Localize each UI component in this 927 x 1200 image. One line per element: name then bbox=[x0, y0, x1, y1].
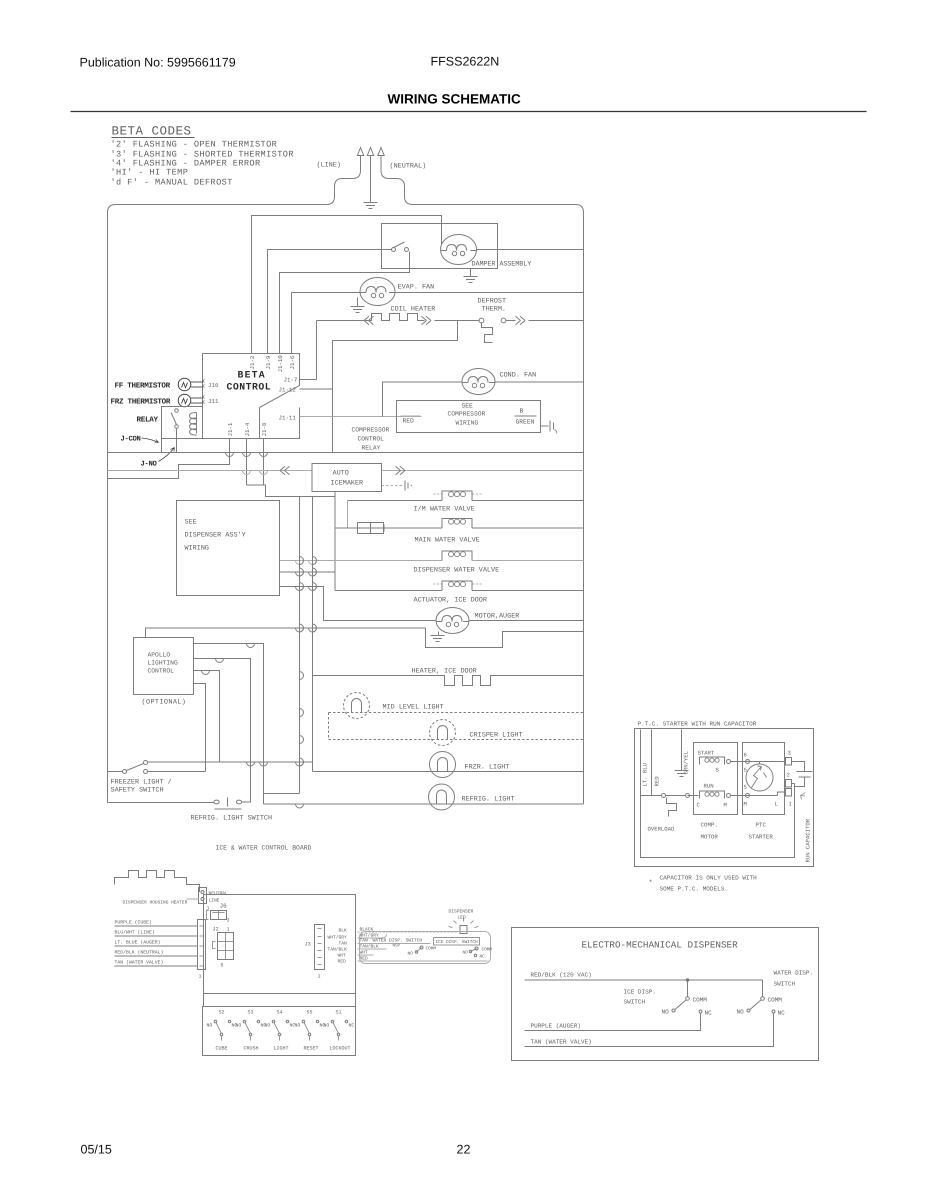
wire: neutral bus bbox=[108, 452, 584, 454]
svg-text:CONTROL: CONTROL bbox=[358, 436, 385, 443]
svg-text:1: 1 bbox=[227, 927, 230, 933]
svg-text:EVAP. FAN: EVAP. FAN bbox=[398, 284, 435, 292]
lamp: mid level light (optional) bbox=[344, 693, 370, 719]
wire: neutral lamp rail bbox=[299, 497, 301, 794]
wire: auger motor to right edge bbox=[469, 620, 584, 622]
wire: GRN/YEL ground lead bbox=[681, 730, 683, 771]
capacitor: run capacitor bbox=[792, 762, 805, 772]
svg-text:J6: J6 bbox=[220, 903, 228, 910]
svg-text:Publication No: 5995661179: Publication No: 5995661179 bbox=[80, 56, 236, 70]
neutral-bus arrow bbox=[367, 148, 373, 156]
wire: actuator feed jog bbox=[280, 571, 336, 573]
svg-text:RELAY: RELAY bbox=[137, 417, 159, 425]
svg-text:J1-7: J1-7 bbox=[284, 377, 298, 384]
svg-text:RUN: RUN bbox=[704, 783, 714, 790]
wire: J1-8 rail bbox=[263, 439, 265, 486]
svg-text:START: START bbox=[698, 750, 715, 757]
motor: condenser fan bbox=[462, 369, 495, 395]
svg-text:J1-10: J1-10 bbox=[277, 355, 284, 373]
svg-text:FRZ THERMISTOR: FRZ THERMISTOR bbox=[111, 398, 171, 407]
svg-text:05/15: 05/15 bbox=[81, 1143, 112, 1157]
lamp: freezer light bbox=[430, 752, 456, 778]
dispenser switch enclosure bbox=[360, 932, 491, 964]
thermistor: FF sensor bbox=[178, 378, 191, 391]
svg-text:FREEZER LIGHT /: FREEZER LIGHT / bbox=[111, 779, 172, 787]
svg-text:DISPENSER: DISPENSER bbox=[449, 909, 474, 915]
control board outline bbox=[204, 895, 356, 994]
header rule bbox=[71, 111, 867, 113]
svg-text:J1-1: J1-1 bbox=[227, 422, 234, 436]
wire: rail base link bbox=[264, 793, 300, 795]
svg-text:P.T.C. STARTER WITH RUN CAPACI: P.T.C. STARTER WITH RUN CAPACITOR bbox=[638, 721, 757, 728]
svg-text:S5: S5 bbox=[307, 1010, 313, 1016]
damper assembly box bbox=[382, 224, 498, 269]
svg-text:TAN (WATER VALVE): TAN (WATER VALVE) bbox=[531, 1039, 592, 1046]
svg-text:I: I bbox=[789, 801, 792, 808]
svg-text:SAFETY SWITCH: SAFETY SWITCH bbox=[111, 787, 164, 795]
svg-text:LT. BLU: LT. BLU bbox=[642, 763, 649, 787]
wire: icemaker test plug lead bbox=[382, 485, 404, 487]
svg-text:TAN/BLK: TAN/BLK bbox=[328, 947, 348, 953]
svg-text:BETA CODES: BETA CODES bbox=[112, 125, 192, 139]
wire: J1-6 to evap fan row bbox=[291, 293, 293, 354]
wire: I/M valve feed link bbox=[347, 501, 349, 529]
svg-text:COMPRESSOR: COMPRESSOR bbox=[448, 411, 486, 418]
board lower outline link bbox=[203, 994, 205, 1007]
svg-text:CAPACITOR IS ONLY USED WITH: CAPACITOR IS ONLY USED WITH bbox=[660, 875, 758, 882]
switch: freezer light safety switch bbox=[123, 770, 127, 774]
svg-text:J1-2: J1-2 bbox=[249, 355, 256, 369]
svg-text:J3: J3 bbox=[305, 942, 311, 948]
svg-text:LINE: LINE bbox=[209, 898, 220, 904]
svg-text:TAN: TAN bbox=[360, 938, 369, 944]
lamp: refrigerator light bbox=[429, 784, 455, 810]
wire: main valve feed bbox=[335, 527, 358, 529]
wire+resistor: heater ice door row bbox=[313, 676, 584, 686]
wire: icemaker bus left bbox=[108, 470, 313, 472]
terminal 2 bbox=[786, 780, 792, 788]
connector arrows into heater bbox=[369, 316, 374, 324]
ground: auger motor bbox=[438, 632, 440, 636]
svg-text:FFSS2622N: FFSS2622N bbox=[431, 55, 500, 69]
wire: apollo output 4 bbox=[194, 684, 206, 772]
switch: refrig light switch bbox=[214, 800, 219, 804]
PTC STARTER box bbox=[743, 743, 785, 815]
wire: frzr light row bbox=[313, 771, 584, 773]
main schematic enclosure left edge bbox=[107, 213, 109, 803]
svg-text:CUBE: CUBE bbox=[216, 1046, 228, 1052]
wire: apollo to auger return bbox=[146, 628, 426, 638]
switch: ice dispenser switch bbox=[687, 980, 689, 997]
svg-text:ICE DISP.: ICE DISP. bbox=[624, 989, 656, 996]
svg-text:COMM: COMM bbox=[768, 997, 783, 1004]
ground: mains earth bbox=[370, 159, 372, 203]
wire: actuator to right edge bbox=[472, 590, 584, 592]
wire: refrig light row bbox=[264, 803, 584, 805]
svg-text:22: 22 bbox=[457, 1143, 471, 1157]
connector J11 bbox=[203, 396, 205, 404]
AUTO ICEMAKER box bbox=[312, 464, 382, 492]
switch: damper switch bbox=[392, 248, 396, 252]
svg-text:'HI' - HI TEMP: 'HI' - HI TEMP bbox=[111, 168, 189, 178]
APOLLO LIGHTING CONTROL box bbox=[134, 638, 194, 695]
solenoid coil: actuator ice door bbox=[442, 581, 472, 591]
svg-text:COMM: COMM bbox=[482, 948, 493, 953]
svg-text:RED: RED bbox=[654, 776, 661, 787]
svg-text:NO: NO bbox=[662, 1009, 670, 1016]
svg-text:NO: NO bbox=[265, 1023, 271, 1029]
solenoid coil: main water valve bbox=[442, 519, 472, 529]
svg-text:WHT: WHT bbox=[338, 953, 347, 959]
svg-text:5: 5 bbox=[744, 784, 747, 791]
svg-text:COMM: COMM bbox=[693, 997, 708, 1004]
wire: J-CON pin drop bbox=[161, 439, 163, 453]
svg-text:3: 3 bbox=[227, 918, 230, 924]
svg-text:J1-8: J1-8 bbox=[261, 422, 268, 436]
wire: start to PTC 6 and terminal 3 bbox=[731, 761, 786, 763]
wire: neutral entry to main box top edge (right) bbox=[381, 159, 584, 213]
wire: J1-12 stub bbox=[300, 388, 333, 390]
svg-text:3: 3 bbox=[788, 750, 791, 757]
svg-text:6: 6 bbox=[744, 752, 747, 759]
wire: dispenser valve to right edge bbox=[472, 560, 584, 562]
wire: apollo output 2 bbox=[194, 659, 251, 803]
svg-text:M: M bbox=[724, 802, 727, 809]
svg-text:J1-6: J1-6 bbox=[289, 355, 296, 369]
svg-text:TAN: TAN bbox=[339, 941, 348, 947]
svg-text:J10: J10 bbox=[208, 382, 219, 389]
svg-text:J1-12: J1-12 bbox=[279, 387, 297, 394]
wire: evap fan row bbox=[292, 292, 361, 294]
wire: apollo output 1 bbox=[194, 644, 264, 805]
svg-text:(OPTIONAL): (OPTIONAL) bbox=[142, 699, 187, 707]
svg-text:S4: S4 bbox=[277, 1010, 283, 1016]
SEE COMPRESSOR WIRING box bbox=[397, 401, 541, 433]
relay: switch contacts bbox=[175, 409, 179, 413]
wire: rail jog to feeder bbox=[247, 485, 336, 497]
svg-text:RUN CAPACITOR: RUN CAPACITOR bbox=[805, 818, 812, 862]
defrost thermostat terminals bbox=[479, 318, 484, 323]
svg-text:NO: NO bbox=[236, 1023, 242, 1029]
svg-text:S2: S2 bbox=[219, 1010, 225, 1016]
svg-text:GREEN: GREEN bbox=[516, 419, 535, 426]
wire: mid level light row (dashed) bbox=[329, 712, 584, 714]
svg-text:CRISPER LIGHT: CRISPER LIGHT bbox=[470, 732, 523, 740]
svg-text:NC: NC bbox=[480, 955, 486, 960]
wire: cond fan to right edge bbox=[495, 381, 584, 383]
fuse: water valve thermal fuse bbox=[358, 523, 384, 534]
svg-text:*: * bbox=[649, 879, 653, 888]
svg-text:(NEUTRAL): (NEUTRAL) bbox=[390, 163, 427, 171]
resistor: coil heater element bbox=[317, 314, 425, 321]
switch: ice dispenser microswitch bbox=[475, 947, 478, 950]
svg-text:LOCKOUT: LOCKOUT bbox=[330, 1046, 351, 1052]
svg-text:APOLLO: APOLLO bbox=[148, 652, 171, 659]
svg-text:BLU/WHT (LINE): BLU/WHT (LINE) bbox=[115, 930, 155, 936]
svg-text:TAN (WATER VALVE): TAN (WATER VALVE) bbox=[115, 960, 164, 966]
svg-text:5: 5 bbox=[744, 767, 747, 774]
svg-text:OVERLOAD: OVERLOAD bbox=[648, 826, 675, 833]
winding: run winding bbox=[700, 791, 725, 799]
resistor: dispenser housing heater zigzag bbox=[115, 871, 200, 893]
solenoid coil: I/M water valve bbox=[442, 491, 472, 501]
wire: fuse to main valve coil bbox=[385, 527, 443, 529]
wire: J1-10 to damper switch return bbox=[280, 252, 410, 354]
svg-text:J-CON: J-CON bbox=[121, 436, 141, 444]
wire: C terminal feed bbox=[688, 795, 699, 797]
svg-text:CONTROL: CONTROL bbox=[148, 668, 175, 675]
svg-text:REFRIG. LIGHT SWITCH: REFRIG. LIGHT SWITCH bbox=[191, 815, 273, 823]
winding: start winding bbox=[700, 757, 725, 765]
wire: relay common to neutral bus bbox=[176, 429, 178, 453]
svg-text:STARTER: STARTER bbox=[749, 834, 774, 841]
svg-text:PTC: PTC bbox=[756, 822, 767, 829]
svg-text:WATER DISP. SWITCH: WATER DISP. SWITCH bbox=[373, 938, 423, 944]
wire: J1-12 riser bbox=[332, 341, 334, 453]
line terminal arrow bbox=[357, 148, 363, 156]
ground: evap fan bbox=[357, 298, 359, 307]
svg-text:COMPRESSOR: COMPRESSOR bbox=[352, 427, 390, 434]
svg-text:RELAY: RELAY bbox=[362, 445, 381, 452]
svg-text:MID LEVEL LIGHT: MID LEVEL LIGHT bbox=[383, 704, 444, 712]
svg-text:HEATER, ICE DOOR: HEATER, ICE DOOR bbox=[412, 668, 477, 676]
svg-text:NO: NO bbox=[295, 1023, 301, 1029]
wire: I/M valve to right edge bbox=[472, 500, 584, 502]
LED: dispenser led bbox=[460, 926, 467, 934]
svg-text:'2' FLASHING - OPEN THERMISTOR: '2' FLASHING - OPEN THERMISTOR bbox=[111, 140, 278, 150]
connector arrows out of heater bbox=[422, 316, 427, 324]
switch: water dispenser switch bbox=[762, 980, 764, 997]
switch: water dispenser microswitch bbox=[420, 946, 423, 949]
svg-text:RED: RED bbox=[403, 418, 415, 425]
svg-text:M: M bbox=[744, 801, 747, 808]
svg-text:RESET: RESET bbox=[304, 1046, 319, 1052]
svg-text:SWITCH: SWITCH bbox=[774, 981, 796, 988]
svg-text:COMP.: COMP. bbox=[701, 822, 718, 829]
wire: damper motor to right edge bbox=[477, 249, 584, 251]
svg-text:THERM.: THERM. bbox=[482, 306, 506, 314]
overload protector bbox=[662, 794, 666, 798]
svg-text:J1-9: J1-9 bbox=[265, 355, 272, 369]
svg-text:DISPENSER WATER VALVE: DISPENSER WATER VALVE bbox=[414, 567, 500, 575]
connector: NEUTRAL/LINE header bbox=[199, 888, 207, 904]
svg-text:WATER DISP.: WATER DISP. bbox=[774, 970, 814, 977]
connector arrows after defrost thermostat bbox=[516, 316, 521, 324]
motor: evaporator fan bbox=[360, 278, 395, 306]
svg-text:'d F' - MANUAL DEFROST: 'd F' - MANUAL DEFROST bbox=[111, 178, 233, 188]
connector: board edge header strip bbox=[198, 920, 206, 970]
svg-text:ICE DISP. SWITCH: ICE DISP. SWITCH bbox=[436, 940, 479, 945]
wire: J1-4 rail bbox=[246, 439, 248, 486]
wire: J1-2 to damper motor feed bbox=[252, 216, 442, 354]
hop: rails over neutral bus bbox=[226, 453, 234, 457]
svg-text:N5P: N5P bbox=[393, 944, 401, 949]
svg-text:WIRING: WIRING bbox=[456, 420, 479, 427]
wire: crisper light row (dashed) bbox=[329, 739, 584, 741]
svg-text:SWITCH: SWITCH bbox=[624, 999, 646, 1006]
svg-text:NO: NO bbox=[463, 951, 469, 956]
connector arrows out of icemaker bbox=[396, 466, 401, 474]
wire: line entry to main box top edge (left) bbox=[108, 159, 361, 213]
svg-text:NC: NC bbox=[778, 1010, 786, 1017]
terminal 3 bbox=[786, 758, 792, 766]
svg-text:LIGHTING: LIGHTING bbox=[148, 660, 178, 667]
electro-mechanical dispenser box bbox=[512, 928, 819, 1061]
BETA CONTROL bevel edge bbox=[259, 408, 261, 439]
svg-text:CRUSH: CRUSH bbox=[244, 1046, 259, 1052]
svg-text:NO: NO bbox=[324, 1023, 330, 1029]
relay compartment box bbox=[162, 407, 203, 439]
svg-text:S3: S3 bbox=[248, 1010, 254, 1016]
svg-text:J-NO: J-NO bbox=[141, 461, 158, 469]
neutral terminal arrow bbox=[378, 148, 384, 156]
svg-text:COIL HEATER: COIL HEATER bbox=[391, 306, 436, 314]
svg-text:1: 1 bbox=[199, 974, 202, 980]
wire: J1-7 riser to heater bbox=[316, 321, 318, 380]
defrost thermostat bracket bbox=[482, 323, 493, 343]
wire: feeder riser from icemaker bbox=[334, 492, 336, 591]
wire: safety switch upper contact row bbox=[148, 761, 313, 763]
lamp: crisper light (optional) bbox=[430, 720, 456, 746]
wire: RED lead bbox=[651, 730, 653, 796]
footnote asterisk pointer bbox=[801, 793, 806, 800]
svg-text:RED: RED bbox=[338, 959, 347, 965]
svg-text:BETA: BETA bbox=[238, 370, 266, 381]
svg-text:J1-11: J1-11 bbox=[279, 415, 297, 422]
svg-text:COMM: COMM bbox=[426, 947, 437, 952]
wire: motor auger feed bbox=[280, 587, 437, 621]
wire: run row to terminal block bbox=[731, 795, 778, 797]
svg-text:1: 1 bbox=[318, 974, 321, 980]
svg-text:PURPLE (CUBE): PURPLE (CUBE) bbox=[115, 920, 153, 926]
svg-text:ICEMAKER: ICEMAKER bbox=[331, 480, 364, 488]
svg-text:NO: NO bbox=[207, 1023, 213, 1029]
wire: LT. BLU supply and return loop bbox=[641, 730, 795, 858]
svg-text:NC: NC bbox=[349, 1023, 355, 1029]
svg-text:S1: S1 bbox=[336, 1010, 342, 1016]
svg-text:RED/BLK (NEUTRAL): RED/BLK (NEUTRAL) bbox=[115, 950, 164, 956]
thermistor: FRZ sensor bbox=[178, 394, 191, 407]
wire: safety switch lower contact to apollo bbox=[148, 771, 206, 773]
svg-text:BLK: BLK bbox=[339, 928, 348, 934]
svg-text:MOTOR,AUGER: MOTOR,AUGER bbox=[475, 613, 520, 621]
svg-text:SEE: SEE bbox=[185, 519, 197, 527]
svg-text:NEUTRAL: NEUTRAL bbox=[209, 891, 229, 897]
svg-text:ICE & WATER CONTROL BOARD: ICE & WATER CONTROL BOARD bbox=[216, 845, 312, 852]
svg-text:AUTO: AUTO bbox=[333, 470, 349, 478]
switch panel outline bbox=[203, 1007, 356, 1056]
wire: J1-7 stub bbox=[300, 379, 317, 381]
svg-text:J11: J11 bbox=[208, 398, 219, 405]
PTC disc resistor bbox=[746, 764, 773, 791]
svg-text:NO: NO bbox=[737, 1009, 745, 1016]
hop: icemaker bus over rails bbox=[243, 471, 251, 475]
svg-text:COND. FAN: COND. FAN bbox=[500, 372, 537, 380]
svg-text:FF THERMISTOR: FF THERMISTOR bbox=[115, 382, 171, 391]
wire: defrost thermostat to right edge bbox=[506, 320, 516, 322]
motor: auger motor bbox=[436, 608, 469, 634]
svg-text:6: 6 bbox=[221, 963, 224, 969]
svg-text:DEFROST: DEFROST bbox=[478, 298, 507, 306]
svg-text:LED: LED bbox=[458, 915, 467, 921]
wire: J1-1 to left edge bbox=[108, 439, 230, 479]
wire: heater to defrost thermostat bbox=[435, 320, 480, 322]
wire: main valve to right edge bbox=[472, 527, 584, 529]
wire: frzr feeder rail bbox=[312, 497, 314, 772]
svg-text:MOTOR: MOTOR bbox=[701, 834, 719, 841]
relay: control relay coil bbox=[190, 413, 197, 436]
wire: optional lamp link bbox=[328, 713, 330, 740]
svg-text:WHT/GRY: WHT/GRY bbox=[328, 935, 348, 941]
svg-text:RED/BLK (120 VAC): RED/BLK (120 VAC) bbox=[531, 972, 592, 979]
svg-text:J1-4: J1-4 bbox=[244, 422, 251, 436]
COMP MOTOR box bbox=[694, 743, 738, 815]
svg-text:ACTUATOR, ICE DOOR: ACTUATOR, ICE DOOR bbox=[414, 597, 487, 605]
svg-text:CONTROL: CONTROL bbox=[227, 382, 272, 393]
svg-text:(LINE): (LINE) bbox=[317, 162, 341, 170]
svg-text:2: 2 bbox=[787, 772, 790, 779]
main schematic enclosure right edge bbox=[583, 213, 585, 805]
svg-text:LIGHT: LIGHT bbox=[274, 1046, 289, 1052]
svg-text:WIRING: WIRING bbox=[185, 545, 209, 553]
svg-text:NC: NC bbox=[705, 1010, 713, 1017]
svg-text:L: L bbox=[775, 801, 778, 808]
svg-text:SEE: SEE bbox=[462, 403, 474, 410]
svg-text:B: B bbox=[520, 408, 524, 415]
wire: J1-11 to compressor relay RED bbox=[300, 416, 422, 418]
connector arrows into icemaker bbox=[285, 466, 290, 474]
svg-text:SOME P.T.C. MODELS.: SOME P.T.C. MODELS. bbox=[660, 886, 728, 893]
svg-text:PURPLE (AUGER): PURPLE (AUGER) bbox=[531, 1023, 581, 1030]
wire: auger return step bbox=[426, 628, 584, 648]
connector J10 bbox=[203, 380, 205, 388]
svg-text:REFRIG. LIGHT: REFRIG. LIGHT bbox=[462, 796, 515, 804]
svg-text:LT. BLUE (AUGER): LT. BLUE (AUGER) bbox=[115, 940, 161, 946]
svg-text:J2: J2 bbox=[213, 927, 219, 933]
svg-text:DAMPER ASSEMBLY: DAMPER ASSEMBLY bbox=[472, 261, 532, 269]
ground: damper assembly bbox=[470, 269, 472, 277]
BETA CONTROL board outline bbox=[203, 354, 300, 439]
svg-text:ELECTRO-MECHANICAL DISPENSER: ELECTRO-MECHANICAL DISPENSER bbox=[582, 940, 739, 951]
terminal block lower bbox=[786, 789, 792, 797]
svg-text:DISPENSER HOUSING HEATER: DISPENSER HOUSING HEATER bbox=[123, 900, 188, 906]
wire: defrost return to J1-12 node bbox=[333, 321, 458, 341]
wire: red/blk supply bbox=[525, 979, 763, 981]
solenoid coil: dispenser water valve bbox=[442, 551, 472, 561]
svg-text:MAIN WATER VALVE: MAIN WATER VALVE bbox=[415, 537, 480, 545]
PTC section outer box bbox=[635, 729, 814, 867]
svg-text:FRZR. LIGHT: FRZR. LIGHT bbox=[465, 764, 510, 772]
wire: dispenser valve row bbox=[280, 560, 443, 562]
svg-text:I/M WATER VALVE: I/M WATER VALVE bbox=[414, 506, 475, 514]
motor: damper motor bbox=[441, 235, 477, 265]
wire: refrig switch to apollo rail bbox=[242, 801, 251, 803]
SEE DISPENSER ASSY WIRING box bbox=[177, 501, 280, 596]
wire: J1-9 to damper switch feed bbox=[268, 250, 382, 354]
svg-text:DISPENSER ASS'Y: DISPENSER ASS'Y bbox=[185, 532, 246, 540]
svg-text:WIRING SCHEMATIC: WIRING SCHEMATIC bbox=[388, 92, 521, 107]
ground: compressor chassis bbox=[675, 770, 689, 772]
wire: riser to cond fan bbox=[383, 382, 463, 417]
wire: icemaker bus right bbox=[382, 470, 584, 472]
wire: green lead with chassis plug bbox=[541, 425, 549, 427]
wire: main box bottom edge bbox=[108, 802, 215, 804]
wire: terminal 2 to return rail bbox=[792, 783, 795, 785]
label ICE DISP. SWITCH (boxed) bbox=[434, 938, 480, 946]
svg-text:NO: NO bbox=[408, 952, 414, 957]
wire: apollo output 3 bbox=[194, 671, 220, 763]
